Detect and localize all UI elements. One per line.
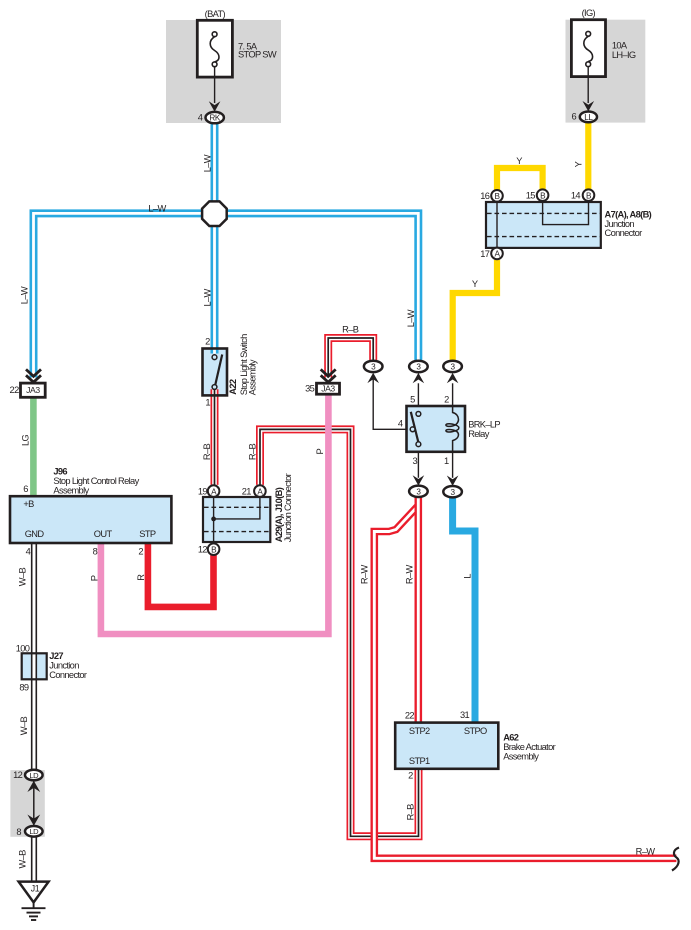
arrow into LL [583,101,595,111]
svg-text:8: 8 [16,827,21,837]
junction connector A7(A) A8(B) box fill [486,202,601,248]
fuse 10A LH-IG box border [571,20,605,77]
wire Y from 17A to relay oval [453,260,497,361]
connector JA3 pin 35 box [317,383,340,394]
arrow up into LD 12 [27,781,40,792]
svg-text:BRK–LP: BRK–LP [468,419,500,429]
BAT fuse tail line [214,67,216,103]
thin line from oval 3 down to relay pin 4 [373,376,406,430]
gray background panel for LD connectors [10,770,44,837]
svg-text:5: 5 [410,395,415,405]
svg-text:GND: GND [25,529,45,539]
svg-text:8: 8 [93,547,98,557]
wire W-B from J96 GND to J27 and to LD [31,543,37,770]
wire R red from J96 STP down,right,up to 12B [148,543,214,607]
svg-text:100: 100 [16,643,30,653]
svg-text:STP1: STP1 [409,756,430,766]
svg-text:21: 21 [242,487,252,497]
svg-text:10A: 10A [612,41,628,51]
arrow into RK [209,101,221,111]
relay BRK-LP coil [446,406,459,452]
wire L-W horizontal branch left to JA3-22 and right to relay oval [34,213,419,377]
pin circle 12 B of A29/J10 [208,543,220,555]
wire L blue from relay oval to A62 STPO [453,498,475,723]
oval RK [206,112,224,123]
fuse 7.5A STOP SW box border [197,20,232,77]
svg-text:4: 4 [26,547,31,557]
gray background panel for fuse 7.5A STOP SW [166,20,281,123]
octagon junction node of L-W wires [202,201,227,226]
svg-text:22: 22 [10,385,20,395]
svg-text:L–W: L–W [203,154,213,172]
ground J1 triangle [19,882,49,903]
junction connector A29(A) J10(B) box border [203,497,270,542]
svg-text:W–B: W–B [17,568,27,587]
svg-text:STPO: STPO [464,726,487,736]
connector letters [26,113,593,894]
pin circle 14 B of A7/A8 [583,189,595,201]
double chevron into JA3-35 [321,369,336,382]
svg-text:3: 3 [412,456,417,466]
svg-text:Relay: Relay [468,429,490,439]
svg-text:6: 6 [23,484,28,494]
svg-text:Connector: Connector [605,228,643,238]
svg-text:W–B: W–B [19,717,29,736]
svg-text:1: 1 [205,397,210,407]
svg-text:2: 2 [205,337,210,347]
svg-text:2: 2 [408,771,413,781]
svg-text:STP: STP [139,529,156,539]
junction connector A7(A) A8(B) box border [486,202,601,248]
IG fuse tail line [587,67,589,103]
svg-text:LD: LD [29,827,39,836]
junction node dot inside A29 [211,517,216,522]
svg-text:LL: LL [584,113,593,122]
svg-text:89: 89 [19,682,29,692]
pin circle 17 A of A7/A8 [491,248,503,260]
arrows up into relay top ovals [413,373,425,383]
svg-text:31: 31 [460,710,470,720]
svg-text:17: 17 [480,249,490,259]
svg-text:A7(A), A8(B): A7(A), A8(B) [605,210,652,220]
switch A22 contacts and blade [215,355,222,385]
connector oval 3 (above relay pin 2) [443,361,462,372]
relay BRK-LP pin leads 5,2,3,1 [418,383,452,478]
svg-text:Assembly: Assembly [248,359,258,395]
svg-text:R–B: R–B [202,444,212,461]
switch A22 Stop Light Switch Assembly box fill [203,349,228,396]
svg-text:RK: RK [209,114,221,123]
svg-text:LD: LD [29,771,39,780]
svg-text:4: 4 [398,418,403,428]
svg-text:Assembly: Assembly [53,485,89,495]
svg-text:L–W: L–W [20,286,30,304]
svg-text:6: 6 [571,111,576,121]
connector oval 8 LD [25,826,43,837]
svg-text:22: 22 [405,711,415,721]
break squiggle at R-W end [672,848,679,871]
svg-text:4: 4 [198,113,203,123]
brake actuator A62 box border [395,723,498,769]
svg-text:R–B: R–B [342,325,359,335]
svg-text:R–W: R–W [360,565,370,585]
svg-text:A22: A22 [228,379,238,395]
arrow down into LD 8 [27,815,40,826]
svg-text:L–W: L–W [203,288,213,306]
svg-text:JA3: JA3 [26,385,40,395]
arrows down into relay bottom ovals [413,475,425,485]
svg-text:R–W: R–W [405,565,415,585]
svg-text:P: P [315,449,325,455]
wire R-B from A22 pin1 to 19A [211,389,219,485]
ovals LD [25,770,43,781]
svg-text:Assembly: Assembly [503,752,539,762]
relay assembly J96 box border [10,496,171,543]
svg-text:Y: Y [472,279,478,289]
wire W-B from LD-8 to ground J1 [31,836,37,882]
svg-text:15: 15 [526,191,536,201]
pin circle 15 B of A7/A8 [537,189,549,201]
A7 dashed lines [487,213,600,236]
wire R-W branch to bottom right break [374,506,676,859]
svg-text:2: 2 [138,547,143,557]
connector oval 3 (below relay pin 3) [409,486,428,497]
svg-text:OUT: OUT [94,529,113,539]
svg-text:1: 1 [444,456,449,466]
svg-text:L–W: L–W [406,309,416,327]
svg-text:L: L [463,574,473,579]
svg-text:R–W: R–W [636,847,656,857]
switch A22 box border [203,349,228,396]
brake actuator A62 box fill [395,723,498,769]
svg-text:R: R [136,574,146,581]
svg-text:JA3: JA3 [321,384,335,394]
double chevron into JA3-22 [26,369,41,382]
gray background panel for fuse 10A LH-IG [566,20,646,123]
relay BRK-LP switch contacts and blade [411,412,418,442]
fuse element symbol 7.5A STOP SW [210,32,219,67]
ovals 3 around relay [364,361,383,372]
wire P pink from J96 OUT down,right,up to JA3-35 [101,394,329,634]
svg-text:STOP SW: STOP SW [238,50,277,60]
svg-text:Connector: Connector [49,670,87,680]
wire R-B long run: 21A up, right, down, right, up to A62 STP1 [260,429,419,836]
relay BRK-LP box fill [407,406,466,452]
svg-text:Y: Y [574,161,584,167]
svg-text:W–B: W–B [18,850,28,869]
circles B/A at A7 [491,190,503,202]
svg-text:14: 14 [571,191,581,201]
circles A/B at A29 [208,485,220,497]
svg-text:19: 19 [198,487,208,497]
wire Y U-loop 15B to 16B [497,168,543,191]
wire R-B U-loop above JA3-35 to oval 3 [328,338,373,378]
junction connector A29(A) J10(B) box fill [203,497,270,542]
svg-text:L–W: L–W [148,203,166,213]
wire R-W main from relay oval 3 to A62 STP2 [414,497,422,722]
connector JA3 pin 22 box [21,383,46,397]
A7 internal wiring [497,203,589,247]
svg-text:LG: LG [21,434,31,446]
relay assembly J96 box fill [10,496,171,543]
svg-text:12: 12 [13,770,23,780]
svg-text:R–B: R–B [247,444,257,461]
svg-text:STP2: STP2 [409,726,430,736]
svg-text:(IG): (IG) [582,8,596,18]
svg-text:(BAT): (BAT) [205,9,226,19]
svg-text:Y: Y [516,156,522,166]
rotated labels [17,154,583,868]
svg-text:LH–IG: LH–IG [612,50,636,60]
wire Y from IG fuse LL to 14B [585,123,591,190]
svg-text:P: P [90,575,100,581]
fuse element symbol 10A LH-IG [584,31,593,66]
arrow up into oval 3 near JA3 [367,373,379,383]
A29 internal wiring [214,498,260,541]
LD inter-oval line [33,781,35,827]
svg-text:Junction Connector: Junction Connector [283,473,293,542]
junction connector J27 box fill [22,653,47,679]
svg-text:2: 2 [444,395,449,405]
svg-text:35: 35 [305,384,315,394]
A29 dashed lines [204,507,269,531]
connector oval 3 (above relay pin 5) [409,361,428,372]
relay BRK-LP box border [407,406,466,452]
junction connector J27 box border [22,653,47,679]
svg-text:+B: +B [23,499,34,509]
svg-text:J1: J1 [31,884,40,894]
wire LG green from JA3-22 to J96 [30,397,37,496]
oval LL [580,112,597,123]
connector oval 3 (below relay pin 1) [443,486,462,497]
ground symbol hatch [22,902,46,920]
svg-text:12: 12 [198,545,208,555]
svg-text:16: 16 [480,191,490,201]
wire L-W vertical from BAT fuse through octagon to A22 [211,124,219,354]
svg-text:R–B: R–B [406,804,416,821]
pin circle 21 A of A29/J10 [254,485,266,497]
